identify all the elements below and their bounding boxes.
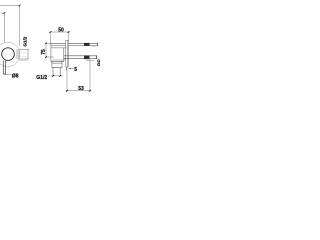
svg-text:5: 5 (74, 67, 77, 73)
leader line Ø8 (4, 74, 11, 76)
bottom outlet stub (53, 68, 60, 76)
bottom pipe end cap (96, 55, 98, 59)
stub dim tick right (59, 75, 61, 77)
50 tick right (68, 31, 70, 33)
svg-text:75: 75 (41, 49, 47, 55)
top pipe (68, 43, 97, 45)
53 tick right (89, 90, 91, 92)
valve inner circle (2, 48, 15, 61)
lever handle (3, 61, 5, 74)
valve body (51, 43, 67, 61)
body corner tick (50, 43, 51, 44)
75 tick top (45, 43, 47, 45)
75 tick bottom (45, 56, 47, 58)
stub dim tick left (52, 75, 54, 77)
svg-text:G3: G3 (97, 62, 100, 67)
body internal line (52, 59, 66, 61)
G1/2 stub dimension line (51, 75, 64, 77)
side outlet flange ring (17, 49, 19, 59)
leader line top (cropped label) (0, 6, 20, 47)
outlet thread lines (19, 52, 28, 56)
leader under bottom pipe (86, 59, 94, 61)
plate bottom stub (65, 67, 67, 70)
svg-text:G1/2: G1/2 (23, 36, 28, 46)
53 tick left (66, 90, 68, 92)
svg-text:G1/2: G1/2 (36, 75, 47, 81)
leader line to lever (1, 13, 5, 42)
svg-text:50: 50 (58, 27, 64, 33)
bottom pipe nut (dark) (84, 55, 90, 59)
dimension 75 (46, 42, 54, 58)
svg-text:53: 53 (78, 86, 84, 92)
top pipe nut (dark) (84, 43, 90, 46)
bottom outlet upper box (52, 61, 62, 67)
dimension 50 (49, 32, 69, 43)
escutcheon outer circle (0, 42, 20, 66)
leader tick A (19, 5, 21, 7)
block corner dots (26, 48, 29, 51)
side outlet block G1/2 (19, 50, 28, 60)
dimension 5 (plate thickness) (68, 68, 73, 70)
faint line near top pipe end (92, 46, 96, 48)
svg-text:Ø8: Ø8 (12, 74, 19, 80)
bottom pipe (64, 56, 97, 59)
50 tick left (49, 31, 51, 33)
5 arrowhead (68, 68, 71, 69)
wall plate (66, 40, 69, 67)
top pipe end cap (97, 43, 99, 46)
dimension 53 (66, 60, 91, 92)
leader tick B (3, 12, 5, 14)
block lower chamfer line (20, 59, 29, 61)
